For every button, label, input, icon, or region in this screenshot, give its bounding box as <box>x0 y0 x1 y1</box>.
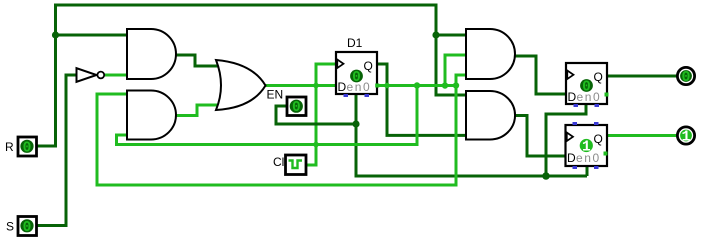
svg-text:1: 1 <box>681 129 690 146</box>
wire top-right AND output to top latch D input <box>514 56 566 94</box>
svg-text:Cl: Cl <box>273 155 284 169</box>
flip-flop D1 <box>336 36 379 97</box>
node feedback junction 1 <box>414 82 420 88</box>
wire top latch Q to output pin <box>607 75 678 78</box>
wire clock net Cl to D1 clock input <box>307 64 337 165</box>
output pin Q top <box>677 67 694 86</box>
svg-text:EN: EN <box>267 88 284 102</box>
wire S net to NOT input <box>37 75 77 226</box>
svg-text:0: 0 <box>292 100 301 116</box>
wire R net: R pin to vertical <box>37 5 466 146</box>
input pin Cl clock <box>273 155 306 175</box>
svg-text:D1: D1 <box>347 36 363 50</box>
flip-flop bottom-right latch <box>566 122 608 169</box>
wire feedback branch up to top-right AND input 3 <box>456 75 466 86</box>
wire feedback long bottom run to bottom-left AND input 1 <box>97 86 456 186</box>
wire R branch to top-left AND input 1 <box>56 34 128 37</box>
node notQ dot at Q crossing <box>384 83 390 89</box>
node EN junction right <box>542 172 550 180</box>
wire D1 notQ feedback bus <box>377 84 456 87</box>
svg-text:0: 0 <box>681 69 690 86</box>
wire EN net: EN pin left and down to en bus <box>276 106 356 124</box>
wire OR output to D1 D input <box>264 84 336 87</box>
svg-text:D: D <box>568 90 577 104</box>
svg-text:0: 0 <box>23 140 32 156</box>
input pin R <box>5 137 37 156</box>
wire top-left AND output to OR input 1 <box>174 55 224 66</box>
node EN junction <box>352 120 359 127</box>
wire R branch to top-right AND input 1 <box>436 34 466 37</box>
node clock crosses OR output <box>313 83 319 89</box>
gate OR <box>216 60 266 110</box>
gate AND top-right <box>466 29 515 79</box>
svg-text:D: D <box>338 80 347 94</box>
svg-text:en0: en0 <box>577 90 602 104</box>
wire NOT output to top-left AND input 2 <box>105 74 127 77</box>
input pin S <box>6 217 37 236</box>
flip-flop top-right latch <box>566 63 609 107</box>
wire feedback down to lower line <box>117 86 418 145</box>
svg-text:Q: Q <box>594 132 603 146</box>
input pin EN <box>267 88 307 117</box>
node junction R branch right <box>432 31 439 38</box>
svg-text:S: S <box>6 220 14 234</box>
svg-text:Q: Q <box>364 59 373 73</box>
node feedback junction 3 <box>453 82 459 88</box>
wire EN vertical to D1 enable and down <box>356 94 587 176</box>
wire EN end up to bottom latch enable <box>586 166 589 176</box>
node feedback junction 2 <box>442 82 448 88</box>
wire EN branch up to top latch enable <box>546 104 586 176</box>
gate AND bottom-right <box>466 91 515 140</box>
svg-text:D: D <box>567 151 576 165</box>
wire D1 Q output to bottom-right AND input 2 <box>377 64 466 135</box>
output pin Q bottom <box>677 127 694 146</box>
gate AND bottom-left <box>127 91 176 140</box>
gate AND top-left <box>127 29 176 79</box>
svg-text:0: 0 <box>23 220 32 236</box>
gate NOT inverter <box>77 68 105 82</box>
svg-text:R: R <box>5 140 14 154</box>
svg-text:en0: en0 <box>576 151 601 165</box>
wire bottom latch Q to output pin <box>607 134 678 137</box>
wire bottom-right AND output to bottom latch D input <box>514 116 565 157</box>
node clock crosses feedback line <box>313 142 319 148</box>
node junction R branch left <box>52 31 59 38</box>
svg-text:en0: en0 <box>347 80 372 94</box>
wire bottom-left AND output to OR input 2 <box>174 105 224 116</box>
svg-text:Q: Q <box>594 70 603 84</box>
wire feedback branch up to top-right AND input 2 <box>445 55 466 86</box>
